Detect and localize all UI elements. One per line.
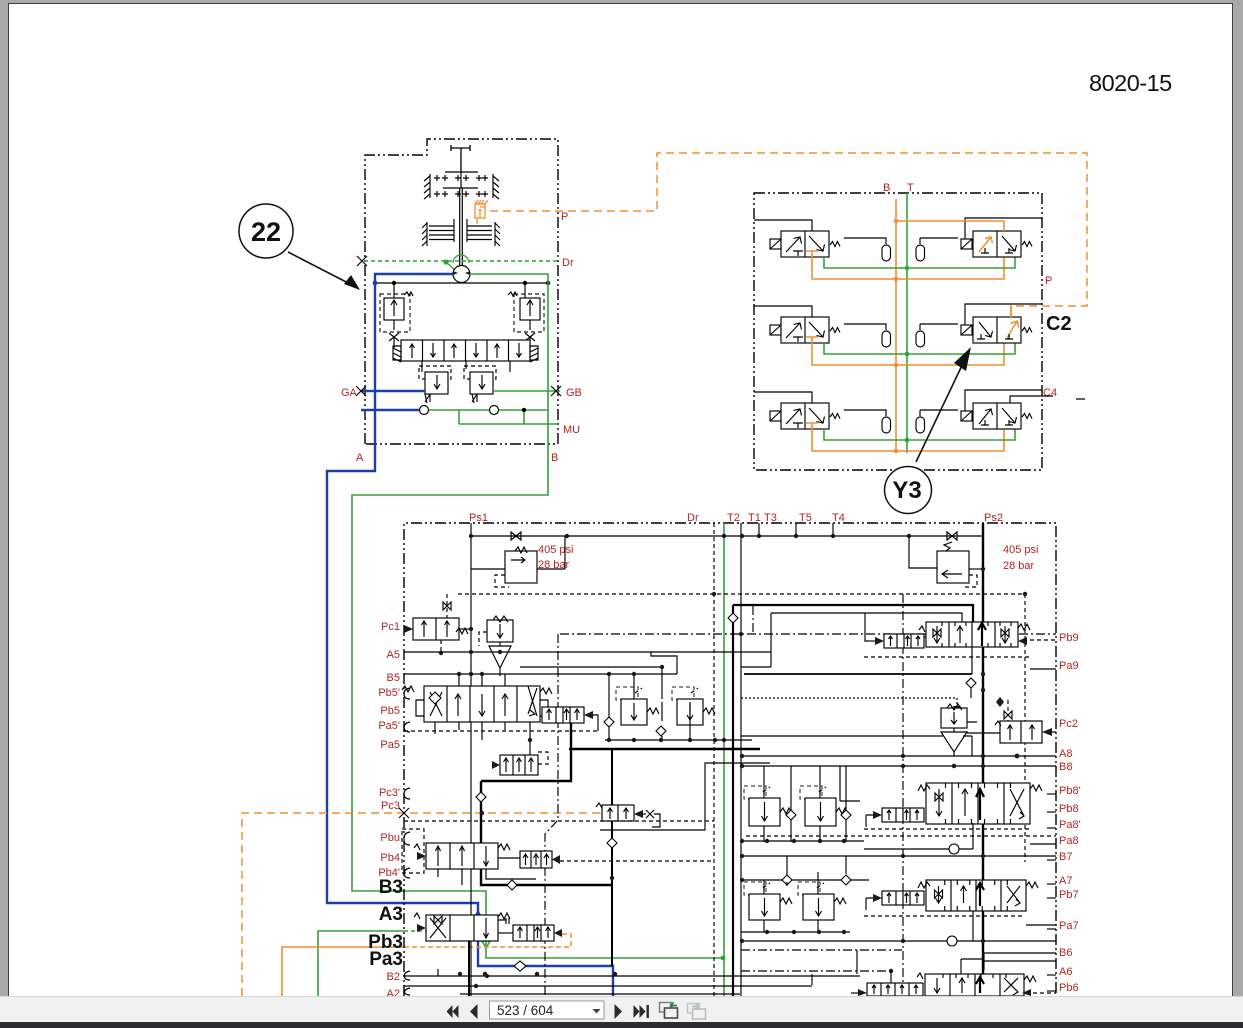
svg-text:B2: B2 — [387, 971, 400, 983]
svg-text:T: T — [907, 182, 914, 194]
svg-text:Ps2: Ps2 — [984, 512, 1003, 524]
svg-text:Pa3: Pa3 — [369, 949, 403, 970]
svg-text:Pb5: Pb5 — [380, 705, 400, 717]
svg-text:T3: T3 — [764, 512, 777, 524]
svg-text:Pa7: Pa7 — [1059, 920, 1079, 932]
svg-text:GA: GA — [341, 387, 358, 399]
svg-text:B7: B7 — [1059, 851, 1072, 863]
svg-text:Pc3': Pc3' — [379, 787, 400, 799]
svg-text:GB: GB — [566, 387, 582, 399]
svg-text:T4: T4 — [832, 512, 845, 524]
svg-text:Pc2: Pc2 — [1059, 718, 1078, 730]
svg-text:T1: T1 — [748, 512, 761, 524]
svg-text:405 psi: 405 psi — [538, 544, 573, 556]
svg-text:Pc3: Pc3 — [381, 800, 400, 812]
svg-text:B6: B6 — [1059, 947, 1072, 959]
svg-text:C2: C2 — [1046, 313, 1072, 335]
svg-text:405 psi: 405 psi — [1003, 544, 1038, 556]
svg-text:P: P — [561, 211, 568, 223]
svg-text:A8: A8 — [1059, 748, 1072, 760]
svg-text:A5: A5 — [387, 649, 400, 661]
svg-text:A7: A7 — [1059, 875, 1072, 887]
svg-text:Pb6: Pb6 — [1059, 982, 1079, 994]
svg-text:Pb7: Pb7 — [1059, 889, 1079, 901]
svg-text:P: P — [1045, 275, 1052, 287]
svg-text:22: 22 — [251, 217, 281, 247]
svg-text:B5: B5 — [387, 672, 400, 684]
svg-text:523 / 604: 523 / 604 — [497, 1003, 554, 1018]
svg-text:Pb8': Pb8' — [1059, 785, 1081, 797]
svg-text:A3: A3 — [379, 904, 403, 925]
svg-text:Pa5: Pa5 — [380, 739, 400, 751]
svg-text:A6: A6 — [1059, 966, 1072, 978]
svg-text:Pa8: Pa8 — [1059, 835, 1079, 847]
svg-text:Dr: Dr — [687, 512, 699, 524]
svg-text:Pb9: Pb9 — [1059, 632, 1079, 644]
svg-text:Ps1: Ps1 — [469, 512, 488, 524]
svg-text:28 bar: 28 bar — [1003, 560, 1035, 572]
svg-text:Pb8: Pb8 — [1059, 803, 1079, 815]
svg-text:B: B — [551, 452, 558, 464]
svg-text:T2: T2 — [727, 512, 740, 524]
svg-text:C4: C4 — [1043, 387, 1057, 399]
svg-text:Pa5': Pa5' — [378, 720, 400, 732]
svg-text:Y3: Y3 — [892, 477, 921, 504]
svg-text:B3: B3 — [379, 877, 403, 898]
svg-text:Pc1: Pc1 — [381, 621, 400, 633]
svg-text:8020-15: 8020-15 — [1089, 70, 1172, 96]
svg-text:Pa8': Pa8' — [1059, 819, 1081, 831]
svg-text:B8: B8 — [1059, 761, 1072, 773]
svg-text:Pa9: Pa9 — [1059, 660, 1079, 672]
svg-text:Pb5': Pb5' — [378, 687, 400, 699]
svg-text:Pb4: Pb4 — [380, 852, 400, 864]
svg-text:A: A — [356, 452, 364, 464]
svg-text:MU: MU — [563, 424, 580, 436]
svg-text:Dr: Dr — [562, 257, 574, 269]
svg-text:T5: T5 — [799, 512, 812, 524]
svg-text:Pbu: Pbu — [380, 832, 400, 844]
svg-text:B: B — [883, 182, 890, 194]
